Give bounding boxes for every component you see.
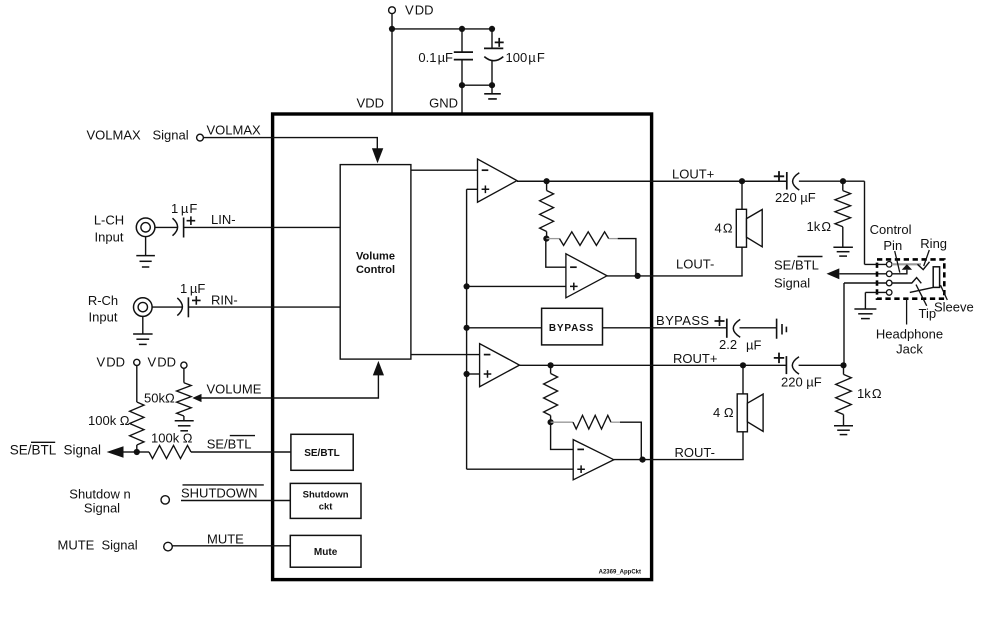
wire R5 to SE/BTL box	[191, 451, 291, 453]
svg-text:BYPASS: BYPASS	[656, 313, 709, 328]
capacitor C7 2.2uF (polarized)	[726, 319, 728, 338]
wire J2 to C4	[152, 306, 182, 308]
svg-text:Input: Input	[89, 310, 118, 325]
junction R feedback node	[548, 419, 554, 425]
power net VDD terminal	[389, 7, 396, 14]
wire C7 to side ground	[740, 327, 777, 329]
terminal MUTE	[164, 542, 173, 551]
svg-text:VDD: VDD	[357, 96, 384, 111]
svg-text:100k Ω: 100k Ω	[151, 431, 193, 446]
svg-text:RIN-: RIN-	[211, 292, 238, 307]
svg-text:VOLMAX: VOLMAX	[207, 123, 262, 138]
svg-text:Mute: Mute	[314, 547, 338, 558]
svg-text:SHUTDOWN: SHUTDOWN	[181, 486, 258, 501]
svg-text:MUTE: MUTE	[58, 538, 95, 553]
svg-text:A2369_AppCkt: A2369_AppCkt	[599, 570, 641, 576]
power VDD terminal (100k)	[134, 359, 140, 365]
wire speaker to ROUT-	[742, 432, 744, 460]
ground below R1	[833, 246, 853, 248]
wire ROUT+ to speaker	[742, 365, 744, 394]
wire U3 output LOUT-	[607, 275, 743, 277]
resistor R6 feedback vertical	[546, 181, 548, 190]
capacitor C6 220uF (polarized)	[785, 356, 787, 374]
wire U4 output ROUT+	[520, 364, 787, 366]
leader Pin to jack	[895, 251, 900, 273]
ground below 100uF	[491, 85, 493, 94]
arrow to SE/BTL Signal	[123, 451, 137, 453]
svg-text:GND: GND	[429, 96, 458, 111]
potentiometer R4 50k	[177, 383, 192, 416]
resistor R2 1k	[843, 365, 845, 374]
ground at J2	[142, 317, 144, 334]
wire pot VDD to R4	[183, 368, 185, 382]
svg-text:SE/BTL: SE/BTL	[774, 257, 819, 272]
svg-text:1k Ω: 1k Ω	[857, 386, 882, 401]
wire rail to U4 plus	[467, 373, 480, 375]
jack pin 1 (control)	[886, 262, 892, 268]
svg-text:Shutdown: Shutdown	[303, 490, 349, 501]
svg-text:1k Ω: 1k Ω	[807, 219, 832, 234]
IC U1 outline	[273, 114, 652, 580]
junction rail to bypass	[464, 325, 470, 331]
wire rail to U3 plus	[467, 285, 566, 287]
block Shutdown ckt	[290, 483, 361, 518]
junction U3 output	[635, 273, 641, 279]
wire U2 output	[517, 180, 787, 182]
svg-text:100k Ω: 100k Ω	[88, 413, 130, 428]
svg-text:4 Ω: 4 Ω	[713, 405, 734, 420]
wire VOLUME to pot wiper	[202, 375, 379, 398]
junction U5 output	[639, 457, 645, 463]
wire R node to U5 minus	[551, 422, 574, 449]
leader Headphone Jack	[906, 299, 908, 325]
resistor R9 feedback horizontal	[551, 421, 573, 423]
resistor R3 100k vertical	[130, 402, 144, 445]
capacitor C4 1uF (polarized)	[177, 298, 182, 316]
svg-text:LIN-: LIN-	[211, 212, 236, 227]
wire R3 to node	[136, 445, 138, 452]
svg-text:ROUT-: ROUT-	[675, 445, 715, 460]
wire control pin drop	[864, 181, 866, 264]
wire VDD to R3	[136, 366, 138, 403]
junction L feedback node	[543, 236, 549, 242]
arrow into volume control top	[372, 148, 383, 163]
ground below pot	[183, 416, 185, 421]
svg-text:Jack: Jack	[896, 341, 923, 356]
svg-text:L-CH: L-CH	[94, 213, 124, 228]
svg-text:4 Ω: 4 Ω	[715, 221, 733, 236]
ground at J1	[145, 237, 147, 256]
jack pin 3	[886, 280, 892, 286]
wire control pin into jack	[865, 263, 887, 265]
wiper arrow of R4	[192, 394, 201, 402]
polarity plus of C4	[192, 296, 201, 305]
wire J1 to C3	[155, 226, 177, 228]
svg-text:V DD: V DD	[148, 355, 177, 370]
resistor R5 100k horizontal	[137, 451, 149, 453]
ground at jack	[854, 308, 876, 310]
wire GND pin drop	[461, 85, 463, 114]
svg-text:SE/BTL: SE/BTL	[207, 436, 252, 451]
svg-text:BYPASS: BYPASS	[549, 323, 594, 334]
polarity plus of C5	[774, 171, 784, 182]
leader Sleeve	[941, 285, 948, 300]
wire jack pin2 to arrow	[839, 273, 886, 275]
capacitor C3 1uF (polarized)	[173, 218, 178, 236]
wire RIN- into IC	[188, 306, 340, 308]
jack ring lever (gray)	[892, 263, 921, 265]
svg-text:ROUT+: ROUT+	[673, 351, 717, 366]
svg-text:Sleeve: Sleeve	[934, 300, 974, 315]
svg-text:R-Ch: R-Ch	[88, 293, 118, 308]
junction 1k (L)	[840, 178, 846, 184]
wire C5 to 1k node	[799, 180, 865, 182]
svg-text:Volume: Volume	[356, 251, 395, 263]
svg-text:Pin: Pin	[883, 238, 902, 253]
svg-text:Control: Control	[870, 222, 912, 237]
capacitor C2 100uF (polarized)	[491, 29, 493, 49]
block SE/BTL	[291, 434, 353, 470]
jack pin 4 (sleeve/gnd)	[886, 290, 892, 296]
polarity plus of C3	[187, 216, 196, 225]
svg-text:SE/BTL: SE/BTL	[10, 442, 57, 457]
svg-text:Shutdow n: Shutdow n	[69, 486, 130, 501]
wire L node to U3 minus	[546, 239, 566, 268]
junction U4 output	[548, 362, 554, 368]
wire LOUT+ to speaker	[741, 181, 743, 209]
wire U5 output ROUT-	[614, 459, 744, 461]
resistor R1 1k	[842, 181, 844, 190]
op-amp U4	[480, 344, 520, 387]
svg-text:Control: Control	[356, 264, 395, 276]
wire jack pin3 lever	[892, 278, 921, 284]
wire LIN- into IC	[184, 226, 341, 228]
svg-text:VOLMAX: VOLMAX	[87, 128, 142, 143]
block BYPASS	[542, 308, 603, 345]
wire speaker to LOUT-	[741, 247, 743, 276]
svg-text:V DD: V DD	[96, 355, 125, 370]
svg-text:Signal: Signal	[84, 501, 120, 516]
polarity plus of C6	[774, 353, 784, 364]
junction ROUT+ speaker	[740, 362, 746, 368]
arrow SE/BTL from jack	[827, 268, 840, 279]
svg-text:Input: Input	[95, 230, 124, 245]
junction bottom 0.1uF	[459, 82, 465, 88]
svg-text:LOUT+: LOUT+	[672, 166, 714, 181]
svg-text:220 µF: 220 µF	[781, 374, 822, 389]
svg-text:LOUT-: LOUT-	[676, 257, 714, 272]
leader Tip	[916, 285, 927, 306]
speaker LS1 4ohm	[736, 209, 746, 247]
svg-text:V DD: V DD	[405, 3, 434, 18]
side ground (bypass)	[777, 319, 787, 339]
ground below R2	[834, 425, 853, 427]
wire C6 to 1k node	[799, 364, 844, 366]
op-amp U3 (L second stage)	[566, 254, 607, 298]
jack ring contact	[918, 262, 930, 270]
terminal SHUTDOWN	[161, 496, 169, 504]
resistor R7 feedback horizontal	[546, 238, 559, 240]
junction LOUT+ speaker	[739, 178, 745, 184]
svg-text:2.2: 2.2	[719, 337, 737, 352]
svg-text:µF: µF	[746, 338, 761, 353]
junction bottom 100uF	[489, 82, 495, 88]
wire VDD terminal to rail	[391, 14, 393, 114]
arrow into volume control bottom	[373, 361, 384, 376]
wire VOLMAX to volume control	[203, 138, 377, 149]
svg-text:Signal: Signal	[102, 538, 138, 553]
junction at 0.1uF cap	[459, 26, 465, 32]
block Volume Control	[340, 165, 411, 360]
leader Ring to jack	[924, 250, 930, 266]
wire volume control to op-amp U2 minus	[411, 169, 478, 171]
svg-text:SE/BTL: SE/BTL	[304, 448, 340, 459]
svg-text:VOLUME: VOLUME	[207, 382, 262, 397]
wire top supply rail	[392, 28, 492, 30]
junction rail to U4 plus	[464, 371, 470, 377]
wire jack pin3 to ROUT+ node	[844, 282, 886, 284]
jack control wiper arrow	[902, 264, 912, 270]
block Mute	[290, 535, 361, 567]
junction 1k (R)	[840, 362, 846, 368]
wire rail to U2 plus	[467, 188, 478, 190]
svg-text:100 µ F: 100 µ F	[506, 50, 545, 65]
wire bottom of caps	[462, 84, 492, 86]
junction at 100uF cap	[489, 26, 495, 32]
junction VDD rail	[389, 26, 395, 32]
power VDD terminal (50k pot)	[181, 362, 187, 368]
capacitor C1 0.1uF	[461, 29, 463, 52]
svg-text:ckt: ckt	[319, 502, 334, 513]
RCA jack J2 R-Ch	[134, 298, 153, 317]
svg-text:MUTE: MUTE	[207, 532, 244, 547]
wire common rail	[466, 189, 468, 469]
svg-text:Signal: Signal	[774, 275, 810, 290]
speaker LS2 4ohm	[737, 394, 747, 432]
wire jack pin4 to ground	[865, 291, 886, 293]
op-amp U5 (R second stage)	[573, 440, 614, 480]
wire volume control to op-amp U4 minus	[411, 354, 480, 356]
polarity plus of C2	[495, 38, 504, 47]
svg-text:1 µ F: 1 µ F	[171, 201, 197, 216]
wire MUTE to block	[172, 545, 290, 547]
op-amp U2	[478, 159, 518, 202]
svg-text:Signal: Signal	[153, 128, 189, 143]
svg-text:Signal: Signal	[64, 442, 102, 457]
jack sleeve bar	[933, 267, 939, 288]
svg-text:Ring: Ring	[920, 236, 947, 251]
polarity plus of C7	[715, 316, 725, 326]
svg-text:0.1 µF: 0.1 µF	[418, 50, 453, 65]
resistor R8 feedback vertical	[550, 365, 552, 373]
capacitor C5 220uF (polarized)	[786, 172, 788, 190]
junction SE/BTL node	[134, 449, 140, 455]
wire SHUTDOWN to block	[181, 500, 290, 502]
svg-text:220 µF: 220 µF	[775, 190, 816, 205]
svg-text:Headphone: Headphone	[876, 326, 943, 341]
junction U2 output	[544, 178, 550, 184]
jack tip lever to sleeve	[910, 288, 933, 293]
wire rail to U5 plus	[467, 468, 574, 470]
svg-text:50kΩ: 50kΩ	[144, 391, 175, 406]
svg-text:1 µF: 1 µF	[180, 281, 205, 296]
junction rail to U3 plus	[464, 283, 470, 289]
wire rail to bypass block	[467, 327, 542, 329]
headphone jack outline (dashed)	[877, 259, 944, 298]
wire BYPASS out	[603, 327, 727, 329]
jack pin 2	[886, 271, 892, 277]
RCA jack J1 L-CH	[136, 218, 155, 237]
terminal VOLMAX	[197, 134, 204, 141]
